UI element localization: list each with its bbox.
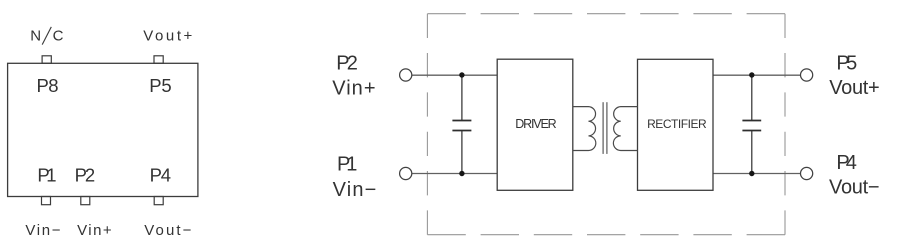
svg-text:P: P [149,75,161,96]
svg-text:RECTIFIER: RECTIFIER [647,117,707,131]
svg-text:5: 5 [846,52,857,74]
svg-text:P: P [37,75,49,96]
svg-text:2: 2 [85,164,95,185]
svg-text:1: 1 [46,164,56,185]
svg-text:C: C [53,27,64,44]
svg-text:Vout+: Vout+ [829,77,880,99]
svg-text:4: 4 [846,152,857,174]
svg-text:1: 1 [346,154,357,176]
svg-text:4: 4 [161,164,171,185]
svg-text:Vout−: Vout− [144,222,191,239]
svg-text:Vin−: Vin− [333,179,377,201]
svg-text:Vin+: Vin+ [332,77,375,99]
svg-text:8: 8 [48,75,58,96]
svg-text:2: 2 [347,53,358,75]
svg-text:DRIVER: DRIVER [515,117,557,131]
svg-text:Vin−: Vin− [25,222,60,239]
svg-text:N: N [30,27,41,44]
svg-text:5: 5 [161,75,171,96]
svg-text:Vout+: Vout+ [143,27,192,44]
svg-text:Vin+: Vin+ [77,222,112,239]
svg-text:Vout−: Vout− [829,177,880,199]
